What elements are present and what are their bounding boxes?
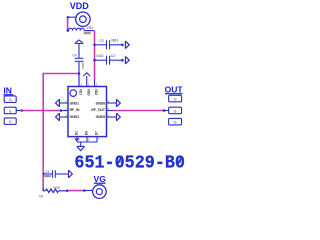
right pin GND8 stub [107,102,117,104]
svg-text:S: S [174,109,177,113]
svg-text:VG: VG [94,174,107,184]
wire RF_OUT net [114,110,164,112]
value 0402 of FB1 [84,31,91,35]
junction at C2 branch [93,59,96,62]
svg-text:C2: C2 [111,54,115,58]
port box S (IN mid) [4,107,16,114]
ground (right) GND8 [117,99,121,107]
junction dot VG [83,189,86,192]
left pin names [70,101,80,119]
svg-text:FB1: FB1 [87,26,93,30]
svg-text:G: G [9,120,12,124]
IN label [3,85,13,95]
ground (right) of C1 [69,170,73,178]
svg-text:VDD: VDD [86,89,90,97]
svg-text:2: 2 [79,82,82,86]
pin stub RF_IN [61,110,68,112]
port box G (IN top) [4,96,16,103]
junction dot IN [21,109,24,112]
svg-text:651-0529-B0: 651-0529-B0 [74,153,185,173]
ground (right) of C3 [125,41,129,49]
VG label [94,174,107,184]
svg-text:D7: D7 [95,131,99,135]
capacitor C4 [75,44,84,87]
wire IN stub [16,110,21,112]
connector J2 VG [93,185,107,199]
junction at FB1 left [67,29,70,32]
slash of zero 1 [117,157,121,165]
wire VG bias to gate node [43,74,79,191]
IC U1 body [68,87,107,137]
svg-text:G: G [9,98,12,102]
svg-text:C4: C4 [72,53,76,57]
svg-text:VDD: VDD [70,1,90,11]
svg-text:G: G [174,121,177,125]
ground (right) GND5 [117,113,121,121]
junction at C4/pin [78,72,81,75]
svg-text:D6: D6 [85,131,89,135]
svg-text:GND5: GND5 [96,115,106,119]
svg-text:RF_IN: RF_IN [70,108,80,112]
wire VG stub [84,190,92,192]
wire VDD rail [94,31,96,81]
power arrow VDD at top pin [83,73,90,87]
capacitor C2 [95,56,123,65]
pin stub top VD1 [78,74,80,87]
top pin names (vertical) [79,89,99,97]
capacitor C3 [95,40,123,49]
OUT label [165,84,184,94]
junction dot at pin [60,109,63,112]
capacitor C1 [43,170,68,178]
svg-text:3: 3 [96,82,98,86]
left pin GND3 stub [60,116,68,118]
svg-text:0402: 0402 [81,62,85,69]
junction at C3 branch [93,44,96,47]
svg-text:R1: R1 [39,194,43,198]
inductor FB1 [68,28,95,30]
svg-text:2: 2 [64,106,67,110]
junction dot C1 branch [43,173,46,176]
bottom pin stubs GND [77,137,97,146]
slash of zero 2 [178,157,182,165]
bottom pin numbers [78,138,100,142]
svg-text:GND1: GND1 [70,101,80,105]
svg-text:4: 4 [108,106,110,110]
junction dot [121,59,124,62]
ground (right) of C2 [125,56,129,64]
connector J1 VDD [68,12,90,26]
svg-text:GND8: GND8 [96,101,106,105]
ground (left) GND1 [56,99,60,107]
svg-text:6: 6 [88,138,90,142]
svg-text:RF_OUT: RF_OUT [91,108,105,112]
junction dot [121,44,124,47]
right pin GND5 stub [107,116,117,118]
svg-text:0402: 0402 [84,31,91,35]
svg-text:0402: 0402 [44,174,51,178]
svg-text:IN: IN [3,85,12,95]
svg-text:0603: 0603 [111,39,118,43]
pin stub RF_OUT [107,110,114,112]
junction dot after R1 [66,189,69,192]
svg-text:G: G [174,98,177,102]
junction dot OUT [163,109,166,112]
value 0402 [44,174,51,178]
right pin numbers [108,99,110,117]
tiny v junction mark [75,138,79,140]
top pin numbers [79,82,97,86]
port box G (OUT top) [169,95,182,102]
wire OUT stub [164,110,169,112]
svg-text:7: 7 [98,138,100,142]
ground (left) GND3 [56,113,60,121]
pin 1 indicator circle [70,90,77,97]
resistor R1 [43,189,67,193]
svg-text:C3: C3 [99,39,103,43]
svg-text:0402: 0402 [54,186,61,190]
svg-text:OUT: OUT [165,84,184,94]
svg-text:GND3: GND3 [70,115,80,119]
svg-text:S: S [9,109,12,113]
ground (down) below IC [77,146,85,150]
left pin numbers [64,99,67,117]
right pin names [91,101,105,119]
svg-text:VD2: VD2 [94,89,98,96]
wire R1 to VG connector [67,190,84,192]
pin stub top VD2 [94,80,96,87]
svg-text:1: 1 [88,82,90,86]
left pin GND1 stub [60,102,68,104]
port box G (OUT bot) [169,118,182,125]
svg-text:D2: D2 [75,131,79,135]
port box S (OUT mid) [169,107,182,114]
bottom pin names (vertical) [75,131,99,135]
wire RF_IN net [22,110,61,112]
svg-text:VD1: VD1 [79,89,83,96]
junction at VDD connector pin [67,16,70,19]
wire VDD connector to FB1 [67,18,69,31]
port box G (IN bot) [4,118,16,125]
svg-text:0402: 0402 [96,54,103,58]
ground (up) above C4 [75,40,84,44]
